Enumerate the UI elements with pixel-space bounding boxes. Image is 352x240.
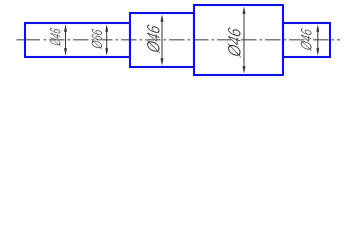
svg-text:Ø46: Ø46 xyxy=(144,22,164,55)
centerline dashed continuation xyxy=(44,39,341,41)
centerline (dash-dot axis) xyxy=(17,39,41,41)
shaft section S1 outline xyxy=(25,23,130,57)
svg-text:Ø66: Ø66 xyxy=(89,27,106,51)
dimension line D5 xyxy=(316,24,319,55)
dimension line D4 xyxy=(243,6,246,73)
svg-text:Ø46: Ø46 xyxy=(225,25,245,59)
dimension line D1 xyxy=(64,24,67,55)
svg-text:Ø46: Ø46 xyxy=(299,27,316,52)
shaft section S3 outline xyxy=(130,13,194,67)
dimension line D3 xyxy=(161,14,164,65)
dimension line D2 xyxy=(105,24,108,55)
shaft section S4 outline xyxy=(194,5,283,75)
shaft section S5 outline xyxy=(283,23,330,57)
